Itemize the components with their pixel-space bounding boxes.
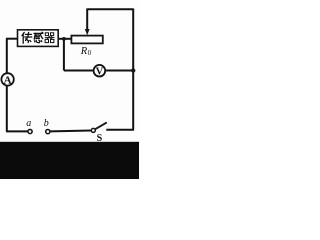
svg-text:A: A: [4, 74, 12, 86]
svg-text:0: 0: [88, 49, 92, 57]
svg-text:R: R: [80, 46, 88, 57]
svg-text:S: S: [97, 133, 103, 144]
svg-text:V: V: [96, 67, 104, 78]
svg-text:a: a: [26, 118, 31, 129]
svg-text:b: b: [44, 118, 49, 129]
